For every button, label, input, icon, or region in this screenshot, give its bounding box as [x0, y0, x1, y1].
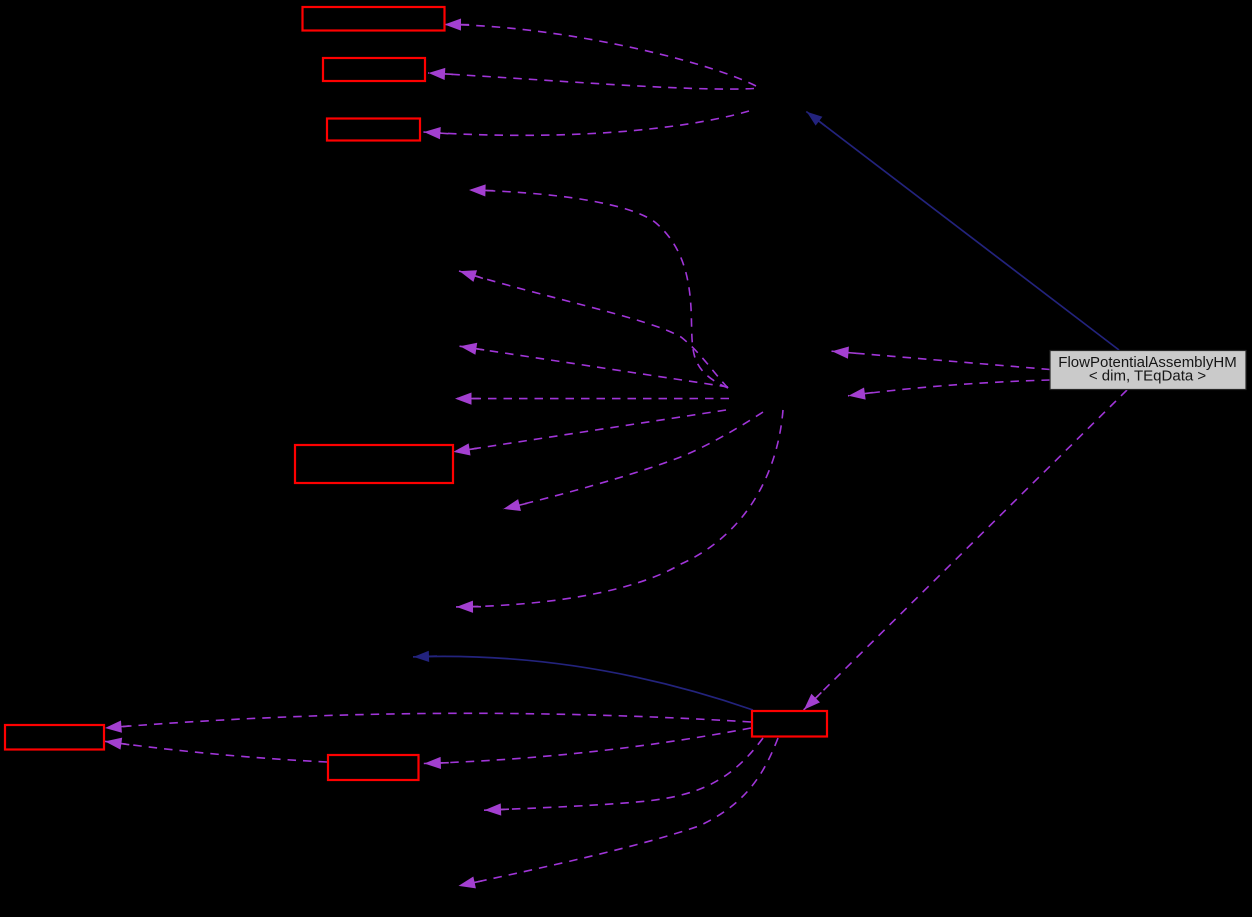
- usage arrow main to N1: [832, 351, 1051, 369]
- usage arrow main to R7 (long diagonal): [804, 390, 1127, 710]
- usage arrow M2 to n6: [503, 412, 763, 509]
- usage arrow R7 to n8: [484, 738, 763, 810]
- usage arrow M2 to n3: [460, 346, 729, 387]
- usage arrow R7 to R5 upper: [105, 713, 752, 728]
- usage arrow T to R3: [423, 111, 749, 135]
- svg-text:< dim, TEqData >: < dim, TEqData >: [1089, 368, 1207, 385]
- usage arrow M2 to n1 (big hook curve): [469, 190, 729, 388]
- usage arrow R7 to R6: [424, 728, 751, 764]
- node box R5: [5, 725, 104, 750]
- usage arrow R6 to R5 lower: [105, 741, 328, 762]
- inheritance arrow R7 to B1 (solid blue curve): [413, 656, 753, 710]
- usage arrow M2 to R4: [453, 410, 726, 452]
- usage arrow main to M2: [848, 380, 1050, 396]
- usage arrow T to R1: [444, 25, 756, 87]
- usage arrow M2 to n7: [456, 410, 783, 607]
- node box R2: [323, 58, 425, 81]
- node box R1: [303, 7, 445, 31]
- usage arrow R7 to n9: [458, 738, 778, 886]
- usage arrow T to R2: [428, 73, 754, 89]
- node box R6: [328, 755, 419, 780]
- inheritance arrow main to T (solid blue): [806, 112, 1119, 351]
- main node FlowPotentialAssemblyHM: [1050, 351, 1246, 390]
- node box R7: [752, 711, 827, 737]
- node box R4: [295, 445, 453, 483]
- usage arrow M2 to n4 (horizontal): [455, 398, 730, 400]
- usage arrow M2 to n2: [459, 271, 728, 388]
- node box R3: [327, 119, 420, 141]
